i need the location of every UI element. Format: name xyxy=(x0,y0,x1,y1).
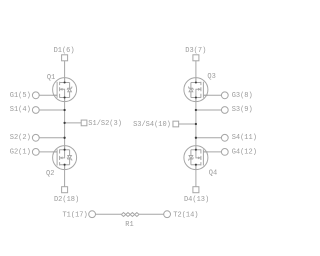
svg-text:D3(7): D3(7) xyxy=(185,47,206,55)
svg-text:S3(9): S3(9) xyxy=(232,106,253,114)
wire G3 to Q3 gate xyxy=(203,94,221,96)
wire S1 to node xyxy=(39,109,64,111)
svg-text:Q3: Q3 xyxy=(207,73,215,81)
pin G2 xyxy=(32,149,39,156)
svg-text:G3(8): G3(8) xyxy=(232,92,253,100)
pin G4 xyxy=(221,149,228,156)
wire Q2 to pad D2 xyxy=(64,165,66,187)
wire S2 to node xyxy=(39,137,64,139)
junction S1/S2 branch xyxy=(63,122,65,124)
svg-text:S1/S2(3): S1/S2(3) xyxy=(88,120,122,128)
pin S1 xyxy=(32,107,39,114)
wire Q4 to pad D4 xyxy=(195,165,197,187)
svg-text:D4(13): D4(13) xyxy=(184,196,209,204)
svg-text:Q4: Q4 xyxy=(209,170,217,178)
pin G1 xyxy=(32,92,39,99)
wire S3 to node xyxy=(196,109,222,111)
pin S2 xyxy=(32,134,39,141)
transistor Q4 xyxy=(184,146,208,170)
svg-text:G1(5): G1(5) xyxy=(10,92,31,100)
junction S4 node xyxy=(195,137,197,139)
svg-text:S3/S4(10): S3/S4(10) xyxy=(133,121,171,129)
node S1/S2 square xyxy=(81,120,87,126)
svg-text:S2(2): S2(2) xyxy=(10,134,31,142)
wire D3 to Q3 drain xyxy=(195,61,197,83)
wire D1 to Q1 drain xyxy=(64,61,66,83)
pad D2 xyxy=(62,187,68,193)
junction S1 node xyxy=(63,109,65,111)
wire Q3 source to Q4 xyxy=(195,98,197,150)
svg-text:D1(6): D1(6) xyxy=(54,47,75,55)
wire G4 to Q4 gate xyxy=(203,151,221,153)
svg-text:G2(1): G2(1) xyxy=(10,148,31,156)
pin S3 xyxy=(221,107,228,114)
wire T1 to R1 xyxy=(96,213,122,215)
transistor Q2 xyxy=(53,146,77,170)
pin S4 xyxy=(221,134,228,141)
pin T2 xyxy=(164,211,171,218)
junction S3/S4 branch xyxy=(195,123,197,125)
wire G2 to Q2 gate xyxy=(39,151,57,153)
svg-text:G4(12): G4(12) xyxy=(232,148,256,156)
wire node to S1/S2 square xyxy=(65,122,82,124)
svg-text:T2(14): T2(14) xyxy=(173,211,198,219)
wire Q1 source to Q2 xyxy=(64,98,66,150)
svg-text:Q2: Q2 xyxy=(46,170,54,178)
svg-text:S4(11): S4(11) xyxy=(232,134,256,142)
wire G1 to Q1 gate xyxy=(39,94,57,96)
svg-text:T1(17): T1(17) xyxy=(62,211,87,219)
pad D1 xyxy=(62,55,68,61)
resistor R1 xyxy=(121,213,139,217)
pin T1 xyxy=(89,211,96,218)
wire S3/S4 square to node xyxy=(179,123,196,125)
node S3/S4 square xyxy=(173,121,179,127)
svg-text:R1: R1 xyxy=(125,221,133,229)
transistor Q1 xyxy=(53,78,77,102)
wire S4 to node xyxy=(196,137,222,139)
pin G3 xyxy=(221,92,228,99)
wire R1 to T2 xyxy=(139,213,164,215)
junction S2 node xyxy=(63,137,65,139)
transistor Q3 xyxy=(184,78,208,102)
svg-text:D2(18): D2(18) xyxy=(54,196,79,204)
junction S3 node xyxy=(195,109,197,111)
svg-text:S1(4): S1(4) xyxy=(10,106,31,114)
pad D4 xyxy=(193,187,199,193)
pad D3 xyxy=(193,55,199,61)
svg-text:Q1: Q1 xyxy=(47,74,55,82)
